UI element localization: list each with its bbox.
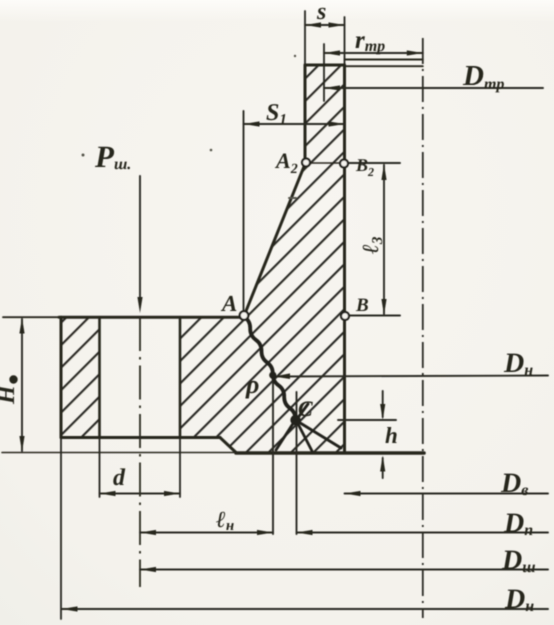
- arrow S1 right: [329, 121, 345, 126]
- arrow s right: [329, 22, 345, 27]
- dimension D_sh line: [140, 569, 548, 571]
- stray scan dots: [82, 55, 298, 199]
- flange left edge extension down: [60, 438, 62, 620]
- dimension l3 line: [383, 165, 385, 314]
- svg-text:s: s: [316, 0, 326, 25]
- dimension D_v line: [345, 493, 549, 495]
- arrow d right: [164, 491, 180, 496]
- dimension l_n line: [140, 532, 273, 534]
- dimension d line: [100, 493, 181, 495]
- arrow D_n neck left: [274, 373, 290, 379]
- flange top face: [59, 316, 245, 319]
- pipe outer wall: [304, 65, 307, 163]
- node A2: [302, 159, 310, 167]
- arrow D_sh left: [140, 567, 156, 572]
- pipe inner wall: [343, 65, 346, 453]
- dimension s line: [305, 24, 345, 26]
- weld seam wavy line A to C: [245, 317, 296, 420]
- arrow s left: [305, 22, 321, 27]
- pipe outer wall extension (s dim): [304, 11, 306, 65]
- dimension D_p line: [297, 532, 549, 534]
- point C (filled): [290, 415, 300, 425]
- arrow D_v left: [345, 491, 361, 496]
- arrow D_tr left: [324, 85, 340, 90]
- dimension r_tr line: [324, 52, 423, 54]
- h extension line at C level: [338, 419, 396, 421]
- dash-dot pipe axis: [422, 38, 424, 618]
- arrowheads: [19, 22, 422, 611]
- arrow S1 left: [244, 121, 260, 126]
- bolt hole right edge: [179, 317, 182, 437]
- svg-text:A: A: [220, 291, 237, 316]
- arrow l3 up: [381, 164, 386, 180]
- weld X cross at C: [276, 404, 341, 451]
- arrow l3 down: [381, 299, 386, 315]
- extension from weld toe x=273: [272, 378, 274, 534]
- arrow D_p left: [297, 530, 313, 535]
- node B2: [340, 160, 348, 168]
- arrow l_n left: [140, 530, 156, 535]
- dimension S1 line: [244, 123, 345, 125]
- pipe mid-wall extension line: [323, 44, 325, 101]
- svg-text:B: B: [355, 295, 369, 316]
- hub outer slope A2-A: [244, 164, 305, 316]
- arrow l_n right: [257, 530, 273, 535]
- arrow h down: [380, 404, 385, 420]
- pipe inner wall extension (s dim): [344, 17, 346, 65]
- flange left edge: [60, 317, 63, 437]
- chamfer: [220, 438, 236, 453]
- arrow d left: [100, 491, 116, 496]
- arrow r_tr left: [324, 50, 340, 55]
- h arrow lower tail: [382, 458, 384, 478]
- bolt hole left edge extension: [99, 438, 101, 498]
- pipe end face edge upper (to axis): [345, 59, 423, 61]
- svg-text:H: H: [0, 384, 20, 405]
- arrow D_n outer left: [62, 606, 78, 611]
- node B: [341, 312, 349, 320]
- arrow Hv up: [19, 318, 24, 334]
- flange body hatched section (main material polygon with bolt-hole void): [61, 65, 345, 453]
- S1 extension line from A: [243, 111, 245, 311]
- B2 extension line: [348, 162, 400, 164]
- P_sh force line: [139, 176, 141, 303]
- B extension line: [348, 315, 400, 317]
- extension from C x=296.5: [296, 392, 298, 534]
- bottom face thick: [236, 451, 424, 455]
- pipe top face: [305, 64, 345, 67]
- arrow P_sh down: [137, 297, 142, 313]
- arrow r_tr right: [407, 50, 423, 55]
- A2-B2 chord: [306, 162, 344, 164]
- flange top face extension (Hv): [3, 316, 59, 318]
- pipe end face edge lower (to axis): [345, 65, 423, 67]
- bottom face thin extension: [2, 452, 236, 454]
- svg-text:C: C: [298, 396, 313, 421]
- bolt hole left edge: [98, 317, 101, 437]
- dimension D_n outer line: [62, 608, 549, 610]
- arrow h up: [380, 456, 385, 472]
- arrow Hv down: [19, 436, 24, 452]
- bolt hole right edge extension: [179, 438, 181, 498]
- node A: [240, 311, 249, 320]
- h arrow upper tail: [382, 391, 384, 417]
- dimension D_tr line: [324, 87, 543, 89]
- dimension D_n neck line: [276, 376, 548, 377]
- svg-text:d: d: [113, 465, 126, 491]
- dimension Hv line: [21, 319, 23, 451]
- weld toe blob at D_n arrow: [269, 372, 276, 379]
- dash-dot bolt axis: [139, 317, 141, 587]
- svg-text:h: h: [385, 423, 398, 448]
- flange bottom face left: [61, 436, 220, 439]
- svg-text:ρ: ρ: [245, 370, 259, 399]
